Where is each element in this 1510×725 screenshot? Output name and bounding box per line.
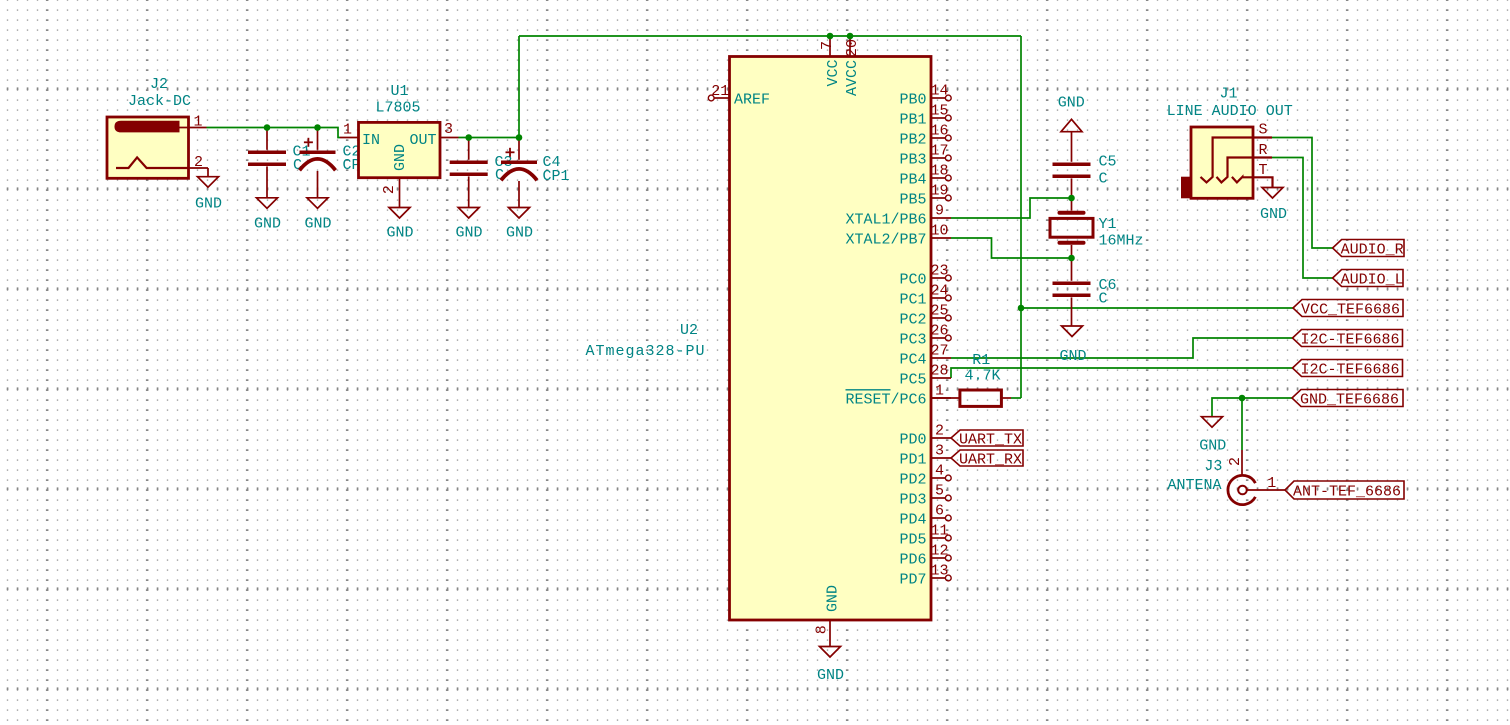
svg-text:J3: J3 (1204, 458, 1222, 475)
J3 reference and value (1167, 458, 1222, 494)
svg-text:C5: C5 (1099, 154, 1117, 171)
global label ANT-TEF_6686 (1285, 481, 1404, 500)
U2 pin 12 PD6 (899, 543, 951, 569)
J2 pin 1 (179, 114, 207, 131)
global label I2C-TEF6686 upper (1293, 330, 1403, 349)
svg-text:4.7K: 4.7K (965, 368, 1001, 385)
svg-text:R: R (1259, 142, 1268, 159)
U2 pin 4 PD2 (899, 463, 951, 489)
svg-text:6: 6 (935, 503, 944, 520)
wire VCC vertical rail right (1020, 36, 1022, 398)
svg-text:GND: GND (386, 224, 413, 241)
U2 pin 20 AVCC (844, 36, 861, 96)
svg-text:I2C-TEF6686: I2C-TEF6686 (1301, 331, 1400, 348)
svg-text:AVCC: AVCC (844, 60, 861, 96)
ground symbol at U1 pin 2 (386, 208, 413, 242)
J2 pin 2 (189, 154, 209, 177)
svg-text:UART_RX: UART_RX (959, 451, 1022, 468)
svg-text:OUT: OUT (409, 132, 436, 149)
U1 pin 2 GND (381, 144, 409, 208)
svg-text:PD6: PD6 (899, 551, 926, 568)
svg-text:9: 9 (935, 203, 944, 220)
U1 pin 1 IN (340, 122, 380, 149)
svg-text:28: 28 (930, 363, 948, 380)
ground symbol at C1 (254, 198, 281, 233)
U2 pin 8 GND (814, 585, 842, 647)
capacitor C4 polarized (501, 138, 537, 208)
svg-text:26: 26 (930, 323, 948, 340)
U2 pin 10 XTAL2/PB7 (845, 223, 951, 249)
svg-text:3: 3 (935, 443, 944, 460)
svg-text:XTAL1/PB6: XTAL1/PB6 (845, 211, 926, 228)
junction at crystal bottom node (1068, 255, 1075, 262)
U2 pin 5 PD3 (899, 483, 951, 509)
svg-text:XTAL2/PB7: XTAL2/PB7 (845, 231, 926, 248)
J3 pin 1 (1247, 475, 1285, 492)
wire VCC to R1 bottom (1011, 397, 1021, 399)
global label VCC_TEF6686 (1293, 300, 1403, 319)
svg-text:PC3: PC3 (899, 331, 926, 348)
svg-text:AUDIO_R: AUDIO_R (1341, 241, 1404, 258)
junction at C2 (314, 124, 321, 131)
wire J1 R to AUDIO_L (1272, 158, 1333, 279)
U2 pin 26 PC3 (899, 323, 951, 349)
junction at VCC_TEF6686 branch (1018, 305, 1025, 312)
U2 pin 25 PC2 (899, 303, 951, 329)
svg-text:25: 25 (930, 303, 948, 320)
junction at C3 (465, 134, 472, 141)
U2 pin 16 PB2 (899, 123, 951, 149)
svg-text:16MHz: 16MHz (1099, 233, 1144, 250)
svg-text:PB5: PB5 (899, 191, 926, 208)
svg-text:27: 27 (930, 343, 948, 360)
J3 pin 2 (1227, 450, 1244, 475)
connector J1 audio jack body (1181, 127, 1253, 198)
svg-text:19: 19 (930, 183, 948, 200)
svg-text:S: S (1259, 122, 1268, 139)
wire VCC vertical riser left (518, 36, 520, 138)
global label UART_RX (951, 450, 1023, 468)
wire J2 pin1 to U1 IN (VIN net) (207, 128, 341, 138)
U1 pin 3 OUT (409, 121, 458, 149)
U2 pin 14 PB0 (899, 83, 951, 109)
U2 pin 21 AREF (708, 83, 770, 109)
C2 labels (343, 144, 370, 174)
U1 reference and value (375, 83, 420, 116)
junction at C1 (264, 124, 271, 131)
ground symbol near GND_TEF6686 (1199, 417, 1226, 455)
svg-text:AREF: AREF (734, 92, 770, 109)
svg-text:PC4: PC4 (899, 351, 926, 368)
svg-text:GND_TEF6686: GND_TEF6686 (1300, 391, 1399, 408)
svg-text:U1: U1 (390, 83, 408, 100)
svg-text:3: 3 (444, 121, 453, 138)
U2 pin 6 PD4 (899, 503, 951, 529)
svg-text:16: 16 (930, 123, 948, 140)
svg-text:PD2: PD2 (899, 471, 926, 488)
wire GND_TEF6686 to J3 pin2 (1241, 398, 1243, 450)
connector J2 Jack-DC body (107, 117, 189, 178)
regulator U1 L7805 body (359, 122, 441, 177)
svg-text:24: 24 (930, 283, 948, 300)
global label UART_TX (951, 430, 1023, 448)
mcu U2 ATmega328-PU body (730, 57, 932, 621)
svg-text:VCC: VCC (825, 59, 842, 86)
svg-text:GND: GND (1199, 437, 1226, 454)
svg-text:CP1: CP1 (543, 168, 570, 185)
U2 pin 2 PD0 (899, 423, 951, 449)
J1 pin T contact (1232, 162, 1273, 188)
svg-text:PD5: PD5 (899, 531, 926, 548)
capacitor C6 (1053, 258, 1091, 326)
svg-text:Jack-DC: Jack-DC (128, 93, 191, 110)
svg-text:PB0: PB0 (899, 91, 926, 108)
svg-text:PC2: PC2 (899, 311, 926, 328)
ground symbol at C3 (455, 208, 482, 242)
ground symbol above C5 (pointing up) (1058, 95, 1085, 132)
svg-text:RESET/PC6: RESET/PC6 (845, 391, 926, 408)
U2 pin 3 PD1 (899, 443, 951, 469)
svg-text:14: 14 (930, 83, 948, 100)
svg-text:1: 1 (1267, 475, 1276, 492)
svg-text:PD0: PD0 (899, 431, 926, 448)
svg-text:PC1: PC1 (899, 291, 926, 308)
wire XTAL2/PB7 to crystal (951, 238, 1072, 258)
svg-text:11: 11 (930, 523, 948, 540)
global label AUDIO_R (1333, 240, 1404, 259)
junction at crystal top node (1068, 195, 1075, 202)
svg-text:PB1: PB1 (899, 111, 926, 128)
svg-text:ATmega328-PU: ATmega328-PU (585, 343, 705, 360)
svg-text:AUDIO_L: AUDIO_L (1341, 271, 1404, 288)
svg-text:PC0: PC0 (899, 271, 926, 288)
svg-text:GND: GND (1059, 348, 1086, 365)
U2 pin 9 XTAL1/PB6 (845, 203, 951, 229)
svg-text:VCC_TEF6686: VCC_TEF6686 (1301, 301, 1400, 318)
svg-text:ANT-TEF_6686: ANT-TEF_6686 (1293, 483, 1401, 500)
U2 pin 24 PC1 (899, 283, 951, 309)
svg-text:UART_TX: UART_TX (959, 431, 1022, 448)
global label GND_TEF6686 (1292, 390, 1403, 409)
svg-text:2: 2 (194, 154, 203, 171)
svg-text:GND: GND (254, 216, 281, 233)
U2 pin 15 PB1 (899, 103, 951, 129)
R1 labels (965, 352, 1001, 385)
junction at GND_TEF6686 node (1239, 395, 1246, 402)
ground symbol at C2 (304, 198, 331, 233)
ground symbol at J1 T (1260, 188, 1287, 224)
J2 reference and value text (128, 76, 191, 110)
connector J3 ANTENA coax (1228, 475, 1255, 504)
Y1 labels (1099, 216, 1144, 250)
capacitor C2 polarized (300, 128, 336, 198)
svg-text:GND: GND (455, 224, 482, 241)
J1 pin S contact (1201, 122, 1273, 183)
U2 pin 13 PD7 (899, 563, 951, 589)
ground symbol at U2 pin 8 (817, 647, 844, 685)
svg-text:PB2: PB2 (899, 131, 926, 148)
svg-text:J2: J2 (150, 76, 168, 93)
wire VCC top rail (519, 35, 1021, 37)
U2 pin 7 VCC (819, 36, 842, 87)
svg-text:GND: GND (1260, 206, 1287, 223)
C6 labels (1099, 277, 1117, 308)
svg-text:GND: GND (392, 144, 409, 171)
wire GND_TEF6686 net (1212, 398, 1292, 417)
U2 pin 27 PC4 (899, 343, 951, 369)
svg-text:T: T (1259, 162, 1268, 179)
svg-text:U2: U2 (680, 322, 698, 339)
global label AUDIO_L (1333, 270, 1404, 289)
wire PC5 to I2C-TEF6686 lower (951, 368, 1293, 378)
wire U1 OUT to C3 C4 (VCC net) (459, 137, 520, 139)
C1 labels (293, 144, 311, 174)
ground symbol at J2 pin 2 (195, 177, 222, 213)
junction at AVCC pin 20 (847, 33, 854, 40)
J1 reference and value (1167, 86, 1293, 120)
svg-text:L7805: L7805 (375, 99, 420, 116)
svg-text:GND: GND (195, 196, 222, 213)
svg-text:PD4: PD4 (899, 511, 926, 528)
svg-text:GND: GND (506, 224, 533, 241)
svg-text:8: 8 (814, 625, 831, 634)
U2 pin 28 PC5 (899, 363, 951, 389)
resistor R1 4.7K (931, 390, 1011, 406)
svg-text:20: 20 (844, 39, 861, 57)
crystal Y1 16MHz (1050, 198, 1093, 258)
wire VCC_TEF6686 branch (1021, 307, 1293, 309)
capacitor C5 (1053, 132, 1091, 198)
ground symbol at C4 (506, 208, 533, 242)
wire J1 S to AUDIO_R (1272, 138, 1333, 249)
svg-text:1: 1 (935, 383, 944, 400)
svg-text:2: 2 (935, 423, 944, 440)
svg-text:C: C (293, 157, 302, 174)
svg-text:GND: GND (817, 667, 844, 684)
svg-text:17: 17 (930, 143, 948, 160)
svg-text:PB4: PB4 (899, 171, 926, 188)
U2 pin 11 PD5 (899, 523, 951, 549)
svg-text:10: 10 (930, 223, 948, 240)
svg-text:18: 18 (930, 163, 948, 180)
global label I2C-TEF6686 lower (1293, 360, 1403, 379)
C4 labels (543, 154, 570, 185)
svg-text:23: 23 (930, 263, 948, 280)
svg-text:ANTENA: ANTENA (1167, 477, 1221, 494)
svg-text:C: C (1099, 291, 1108, 308)
U2 pin 23 PC0 (899, 263, 951, 289)
svg-text:IN: IN (362, 132, 380, 149)
svg-text:Y1: Y1 (1099, 216, 1117, 233)
svg-text:PB3: PB3 (899, 151, 926, 168)
J1 pin R contact (1217, 142, 1273, 183)
wire PC4 to I2C-TEF6686 upper (951, 338, 1293, 358)
svg-text:PD7: PD7 (899, 571, 926, 588)
svg-text:2: 2 (1227, 457, 1244, 466)
svg-text:1: 1 (193, 114, 202, 131)
svg-text:PC5: PC5 (899, 371, 926, 388)
U2 pin 17 PB3 (899, 143, 951, 169)
svg-text:5: 5 (935, 483, 944, 500)
U2 pin 1 RESET/PC6 (845, 383, 951, 409)
U2 reference and value (585, 322, 705, 360)
svg-text:13: 13 (930, 563, 948, 580)
svg-text:2: 2 (381, 185, 398, 194)
svg-text:LINE AUDIO OUT: LINE AUDIO OUT (1167, 103, 1293, 120)
U2 pin 19 PB5 (899, 183, 951, 209)
C3 labels (495, 154, 513, 184)
svg-text:J1: J1 (1219, 86, 1237, 103)
U2 pin 18 PB4 (899, 163, 951, 189)
capacitor C1 (248, 128, 286, 198)
junction at VCC pin 7 (827, 33, 834, 40)
C5 labels (1099, 154, 1117, 188)
svg-text:21: 21 (711, 83, 729, 100)
svg-text:I2C-TEF6686: I2C-TEF6686 (1301, 361, 1400, 378)
svg-text:GND: GND (1058, 95, 1085, 112)
wire XTAL1/PB6 to crystal (951, 198, 1072, 218)
junction at C4 (516, 134, 523, 141)
svg-text:15: 15 (930, 103, 948, 120)
svg-text:1: 1 (343, 122, 352, 139)
svg-text:4: 4 (935, 463, 944, 480)
svg-text:7: 7 (819, 41, 836, 50)
svg-text:C: C (1099, 171, 1108, 188)
svg-text:GND: GND (825, 585, 842, 612)
capacitor C3 (450, 138, 488, 208)
svg-text:PD3: PD3 (899, 491, 926, 508)
svg-text:PD1: PD1 (899, 451, 926, 468)
svg-text:12: 12 (930, 543, 948, 560)
svg-text:R1: R1 (972, 352, 990, 369)
svg-text:GND: GND (304, 216, 331, 233)
ground symbol below C6 (1059, 326, 1086, 365)
